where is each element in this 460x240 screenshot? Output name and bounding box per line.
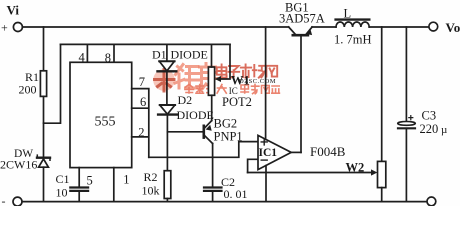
wire R1 to DW	[43, 96, 45, 155]
wire inverting input	[248, 159, 258, 172]
wire R2 to ground	[166, 199, 168, 202]
wire C3 branch upper	[405, 27, 407, 121]
svg-text:POT2: POT2	[222, 95, 252, 109]
555 pin cell wall 4/8	[86, 44, 88, 62]
svg-text:D2: D2	[178, 93, 193, 107]
wire C1 to ground	[78, 191, 80, 202]
op-amp IC1	[258, 135, 291, 169]
svg-text:2CW16: 2CW16	[0, 158, 37, 172]
watermark text shi	[241, 64, 251, 77]
svg-text:F004B: F004B	[310, 144, 346, 159]
terminal Vo circle	[429, 22, 438, 31]
resistor R2	[164, 171, 171, 199]
svg-text:8: 8	[105, 51, 111, 65]
svg-text:Vo: Vo	[446, 20, 460, 35]
svg-text:6: 6	[140, 95, 146, 109]
label IC1 plus	[261, 139, 267, 145]
555 pin box 6 and 2	[132, 89, 149, 158]
arrow W2 wiper head	[371, 169, 377, 175]
svg-text:3AD57A: 3AD57A	[279, 12, 325, 26]
svg-text:BG2: BG2	[214, 117, 238, 131]
wire op-amp ground	[265, 166, 267, 202]
svg-text:0. 01: 0. 01	[224, 187, 248, 201]
wire pin5 lead	[78, 168, 80, 187]
inductor L core bar	[336, 18, 370, 20]
svg-text:1: 1	[123, 173, 129, 187]
capacitor C2	[204, 188, 222, 191]
wire D1 top lead	[166, 44, 168, 61]
svg-text:W2: W2	[346, 161, 365, 175]
svg-text:4: 4	[79, 51, 86, 65]
diode D1	[158, 61, 177, 71]
capacitor C3	[398, 122, 416, 129]
arrow W1 wiper head	[215, 76, 221, 82]
transistor BG2	[204, 121, 213, 144]
capacitor C1	[70, 188, 88, 191]
wire Vz node to 555 supply	[44, 44, 61, 123]
potentiometer W1	[208, 67, 214, 95]
svg-text:2: 2	[138, 126, 144, 140]
svg-text:R2: R2	[144, 170, 158, 184]
svg-text:L: L	[344, 7, 352, 21]
wire feedback to W2 wiper	[248, 172, 373, 174]
svg-text:7: 7	[139, 75, 145, 89]
svg-text:1. 7mH: 1. 7mH	[334, 33, 372, 47]
potentiometer W2	[378, 161, 386, 187]
svg-text:10k: 10k	[142, 184, 160, 198]
wire BG2 base	[167, 131, 203, 133]
wire W1 wiper	[220, 44, 231, 79]
svg-text:+: +	[1, 21, 8, 35]
watermark char Wei	[175, 65, 199, 89]
label IC1 minus	[261, 159, 267, 161]
svg-text:IC1: IC1	[259, 147, 278, 159]
svg-text:W1: W1	[231, 74, 250, 88]
wire top rail left	[23, 26, 289, 28]
svg-text:555: 555	[95, 115, 116, 130]
svg-text:-: -	[2, 194, 6, 206]
wire op-amp supply from rail	[265, 27, 267, 140]
wire D2 to R2 branch	[166, 115, 168, 171]
watermark text dian	[217, 64, 227, 77]
svg-text:200: 200	[19, 83, 37, 97]
wire pins 2-6 node to comparator	[149, 142, 258, 158]
svg-text:C1: C1	[56, 172, 70, 186]
wire bottom rail	[22, 201, 427, 203]
svg-text:DIODE: DIODE	[171, 48, 208, 62]
svg-text:220 µ: 220 µ	[420, 122, 448, 136]
op-amp 555 body	[70, 62, 132, 167]
wire op-amp output	[291, 151, 301, 153]
svg-text:D1: D1	[152, 48, 167, 62]
terminal Vi circle	[13, 23, 22, 32]
transistor BG1	[289, 27, 312, 35]
diode D2	[158, 105, 177, 115]
wire BG2 collector down to C2	[212, 144, 214, 187]
resistor R1	[40, 71, 46, 97]
wire W1 top lead	[211, 44, 213, 67]
wire 555 supply rail	[61, 43, 231, 45]
watermark text zi	[229, 66, 240, 77]
watermark dzsc.com small	[239, 78, 276, 85]
wire W2 branch lower	[381, 188, 383, 202]
watermark char Ku	[200, 64, 217, 89]
watermark logo circle	[153, 69, 175, 91]
zener diode DW	[37, 155, 50, 167]
terminal minus-left circle	[13, 197, 22, 206]
555 pin cell wall 8 right	[113, 44, 115, 62]
wire W2 branch upper	[381, 27, 383, 161]
inductor L windings	[336, 22, 369, 27]
svg-text:10: 10	[56, 186, 68, 200]
watermark text chang	[253, 65, 266, 78]
svg-text:Vi: Vi	[7, 3, 20, 18]
wire C2 to ground	[212, 191, 214, 202]
watermark text wang	[266, 66, 277, 77]
wire W1 bottom to BG2 emitter	[211, 95, 213, 120]
svg-text:5: 5	[87, 174, 93, 188]
svg-text:C3: C3	[422, 109, 437, 123]
wire C3 to ground	[405, 129, 407, 202]
wire output riser to BG1 base	[300, 36, 302, 152]
wire top rail right	[312, 26, 429, 28]
wire pin1 lead	[113, 168, 115, 202]
capacitor C3 polarity plus	[409, 116, 413, 120]
wire DW to ground rail	[43, 167, 45, 201]
watermark row2 quanqiu zuida IC caigou wangzhan	[185, 84, 279, 95]
wire D1 to D2	[166, 72, 168, 105]
terminal bottom-right circle	[427, 197, 436, 206]
wire input branch upper	[43, 27, 45, 71]
svg-text:DIODE: DIODE	[177, 108, 214, 122]
